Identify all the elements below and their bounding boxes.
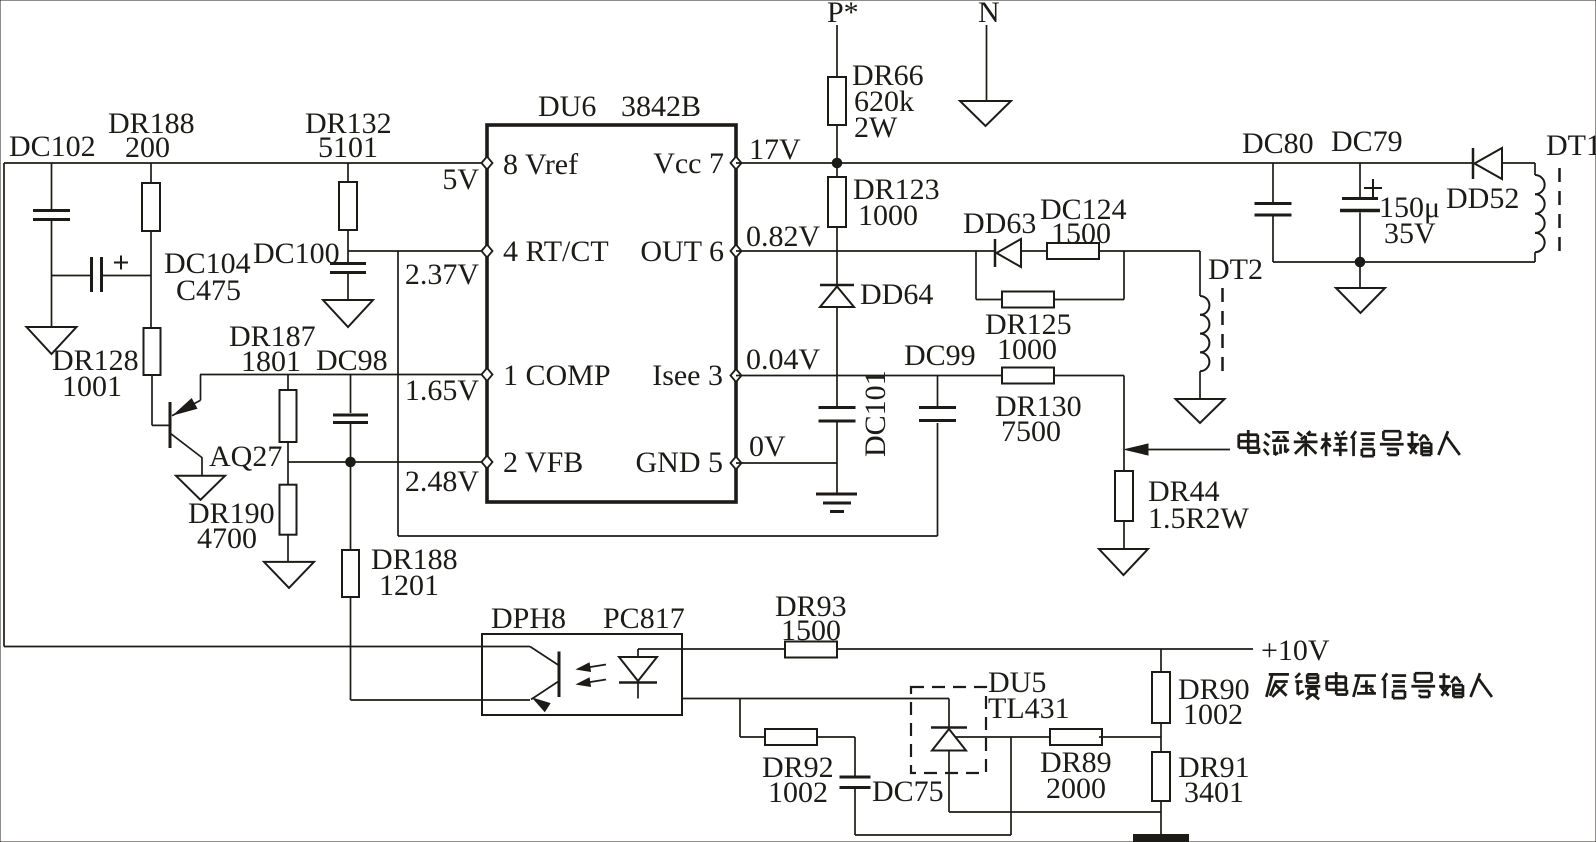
- svg-text:4700: 4700: [197, 522, 257, 555]
- resistor DR66 (620k 2W): [828, 77, 846, 125]
- resistor DR132 (5101): [339, 182, 357, 230]
- svg-text:2 VFB: 2 VFB: [503, 446, 583, 479]
- wire RT/CT branch down: [397, 251, 399, 536]
- svg-text:TL431: TL431: [988, 692, 1070, 725]
- resistor DR123 (1000): [828, 177, 846, 227]
- svg-text:GND 5: GND 5: [636, 446, 724, 479]
- svg-text:1001: 1001: [62, 370, 122, 403]
- wire DR92 to DC75: [817, 736, 855, 738]
- wire DC101 to chassis ground: [836, 423, 838, 494]
- wire DC100 bottom: [347, 274, 349, 300]
- svg-text:DD63: DD63: [963, 207, 1036, 240]
- svg-text:1002: 1002: [1183, 698, 1243, 731]
- inductor DT2 winding: [1200, 296, 1209, 315]
- svg-text:DC79: DC79: [1331, 125, 1403, 158]
- wire DR44 to ground: [1123, 521, 1125, 549]
- wire RT/CT pin 4 row: [348, 250, 487, 252]
- resistor DR92 (1002): [765, 729, 817, 745]
- wire DR123 to DD64: [836, 227, 838, 285]
- svg-text:2000: 2000: [1046, 772, 1106, 805]
- diode DD64: [820, 284, 854, 287]
- wire DC102 bottom: [51, 221, 53, 327]
- svg-text:1000: 1000: [997, 333, 1057, 366]
- wire DT2 to ground: [1199, 371, 1201, 399]
- svg-text:0.82V: 0.82V: [746, 220, 821, 253]
- svg-text:PC817: PC817: [603, 602, 685, 635]
- svg-text:DD64: DD64: [860, 278, 933, 311]
- junction P*/rail: [832, 158, 842, 168]
- wire DC80 bottom: [1272, 217, 1274, 263]
- svg-text:Isee 3: Isee 3: [652, 359, 723, 392]
- pin marker 5: [731, 457, 742, 470]
- resistor DR188 (200): [142, 183, 160, 231]
- svg-text:P*: P*: [827, 0, 859, 29]
- wire branch down to DR92: [739, 699, 741, 738]
- pin marker 1: [482, 368, 493, 381]
- ground under AQ27: [176, 476, 225, 500]
- capacitor DC75: [840, 776, 871, 779]
- wire DC104 left: [52, 275, 91, 277]
- svg-text:200: 200: [125, 131, 170, 164]
- wire DR91 bottom: [1160, 801, 1162, 836]
- svg-text:17V: 17V: [749, 133, 801, 166]
- svg-text:+10V: +10V: [1261, 634, 1330, 667]
- wire DD64 to DC101: [836, 307, 838, 406]
- svg-text:DC99: DC99: [904, 339, 976, 372]
- capacitor DC100: [330, 262, 366, 265]
- wire DR187 top: [287, 375, 289, 391]
- wire LED anode to DR93: [638, 648, 785, 650]
- wire main Vref/Vcc 17V rail left segment: [4, 162, 487, 164]
- resistor DR190 (4700): [280, 485, 297, 535]
- ground under DT2: [1176, 399, 1225, 423]
- wire DR66 to rail: [836, 125, 838, 163]
- wire DT1 bottom corner: [1534, 252, 1536, 262]
- svg-text:0V: 0V: [749, 430, 786, 463]
- svg-text:2W: 2W: [854, 111, 898, 144]
- svg-text:1.5R2W: 1.5R2W: [1148, 502, 1250, 535]
- svg-text:0.04V: 0.04V: [746, 343, 821, 376]
- pin marker 6: [731, 245, 742, 258]
- inductor DT1 winding: [1535, 175, 1545, 194]
- opto LED diode: [619, 657, 657, 681]
- wire N down: [986, 25, 988, 101]
- wire DR188 top: [150, 163, 152, 183]
- pin marker 3: [731, 369, 742, 382]
- wire DD52 to DT1: [1502, 162, 1535, 164]
- wire DR93 to +10V: [837, 648, 1253, 650]
- junction DC79/ground rail: [1355, 257, 1365, 267]
- wire DC99 top: [937, 376, 939, 407]
- core line DT2 dashed: [1221, 288, 1224, 374]
- svg-text:1002: 1002: [768, 776, 828, 809]
- capacitor DC99: [919, 406, 956, 409]
- wire opto LED cathode to TL431 cathode: [682, 698, 949, 700]
- wire DC98 top: [350, 375, 352, 414]
- wire COMP from AQ27 emitter to pin 1: [200, 374, 487, 376]
- core line DT1 dashed: [1558, 168, 1561, 260]
- wire DC124 right: [1099, 250, 1200, 252]
- wire rail to DR123: [836, 163, 838, 177]
- ground under DC100: [323, 300, 373, 327]
- svg-text:DC101: DC101: [859, 370, 892, 457]
- capacitor DC98: [333, 414, 368, 417]
- current sample arrow: [1136, 449, 1230, 451]
- resistor DR44 (1.5R 2W): [1115, 471, 1133, 521]
- ground under DC79: [1336, 288, 1385, 313]
- chassis ground bars: [816, 493, 857, 496]
- svg-text:1.65V: 1.65V: [405, 374, 480, 407]
- resistor DR93 (1500): [785, 642, 837, 658]
- capacitor DC104 (electrolytic C475): [90, 257, 93, 292]
- resistor DR90 (1002): [1152, 672, 1170, 723]
- ground under DR190: [264, 562, 314, 588]
- svg-text:DU6: DU6: [538, 90, 596, 123]
- wire DR90 to DR91: [1160, 723, 1162, 752]
- resistor DR188 (1201): [342, 550, 359, 597]
- ground bar under DR91: [1134, 835, 1188, 842]
- wire left feedback loop vertical: [3, 163, 5, 647]
- wire DC80 top: [1272, 163, 1274, 202]
- wire secondary bottom rail: [1273, 261, 1535, 263]
- TL431 ref wire: [956, 736, 1050, 738]
- svg-text:1801: 1801: [241, 345, 301, 378]
- transistor AQ27 emitter vertical jog: [200, 375, 202, 401]
- wire DC79 top: [1359, 163, 1361, 197]
- opto phototransistor emitter: [531, 681, 559, 700]
- label current sample input (Chinese): [1239, 430, 1460, 456]
- svg-text:1500: 1500: [1051, 217, 1111, 250]
- wire DC104 right: [103, 275, 151, 277]
- wire +10V rail to DR90: [1160, 649, 1162, 672]
- diode DD52: [1472, 148, 1475, 179]
- wire DR128 bottom to base: [151, 375, 153, 425]
- wire DT1 top corner: [1534, 163, 1536, 175]
- opto light arrows: [578, 665, 606, 670]
- wire DR125 branch left: [975, 251, 977, 300]
- ground under DR44: [1099, 549, 1148, 575]
- wire to DT2 winding: [1199, 251, 1201, 296]
- wire DC98 bottom: [350, 424, 352, 462]
- wire DR188-1201 down to opto emitter: [350, 597, 352, 700]
- wire P* down: [836, 25, 838, 77]
- wire DC102 top: [51, 163, 53, 209]
- svg-text:DC100: DC100: [253, 237, 340, 270]
- svg-text:DC80: DC80: [1242, 127, 1314, 160]
- opto emitter arrow: [533, 698, 550, 711]
- capacitor DC101: [819, 406, 856, 409]
- pin marker 4: [482, 245, 493, 258]
- svg-text:C475: C475: [176, 274, 241, 307]
- plus sign of DC104: [114, 262, 128, 264]
- svg-text:4 RT/CT: 4 RT/CT: [503, 235, 609, 268]
- TL431 cathode wire: [948, 699, 950, 728]
- wire DR132 bottom to RT/CT: [347, 230, 349, 262]
- ground under N: [960, 101, 1011, 126]
- capacitor DC79 (150u 35V electrolytic): [1342, 197, 1378, 200]
- op-amp/PWM IC DU6 3842B body: [487, 125, 736, 502]
- svg-text:OUT 6: OUT 6: [640, 235, 724, 268]
- svg-text:1500: 1500: [781, 614, 841, 647]
- opto phototransistor base bar: [558, 652, 561, 698]
- wire Isee pin 3 row: [736, 375, 1002, 377]
- svg-text:5101: 5101: [318, 131, 378, 164]
- wire GND pin 5 row: [736, 462, 837, 464]
- shunt regulator DU5 TL431 dashed box: [911, 687, 986, 773]
- wire DR132 top: [347, 163, 349, 182]
- svg-text:AQ27: AQ27: [209, 440, 282, 473]
- pin marker 2: [482, 456, 493, 469]
- wire DD63 to DC124: [1021, 250, 1047, 252]
- svg-text:2.48V: 2.48V: [405, 465, 480, 498]
- wire DR187 bottom: [287, 442, 289, 462]
- wire DC75 bottom loop to ref: [854, 789, 856, 835]
- wire main rail pin7 to DD52: [736, 162, 1473, 164]
- svg-text:1201: 1201: [379, 569, 439, 602]
- transistor AQ27 emitter diagonal: [172, 400, 201, 416]
- svg-text:8 Vref: 8 Vref: [503, 148, 578, 181]
- svg-text:N: N: [978, 0, 1000, 29]
- wire down to current sense node: [1123, 376, 1125, 472]
- transistor AQ27 emitter arrow: [174, 399, 197, 415]
- opto LED cathode wire: [637, 683, 639, 699]
- pin marker 8: [482, 157, 493, 170]
- label feedback voltage input (Chinese): [1266, 672, 1492, 699]
- resistor DR91 (3401): [1152, 752, 1170, 801]
- resistor DR187 (1801): [280, 390, 297, 442]
- svg-text:DC75: DC75: [872, 775, 944, 808]
- wire DR130 right: [1054, 375, 1124, 377]
- wire left feedback loop bottom horizontal to optocoupler: [4, 646, 530, 648]
- ground under DC102: [27, 327, 77, 354]
- svg-text:DC98: DC98: [316, 344, 388, 377]
- wire DR190 bottom: [287, 535, 289, 562]
- wire DR188 to DR128: [150, 231, 152, 328]
- svg-text:DC102: DC102: [9, 130, 96, 163]
- diode DD63: [994, 239, 997, 267]
- svg-text:DT2: DT2: [1208, 253, 1263, 286]
- capacitor DC102: [33, 209, 70, 212]
- capacitor DC80: [1255, 202, 1292, 205]
- wire DC79 junction to ground: [1359, 262, 1361, 288]
- wire DC79 bottom: [1359, 213, 1361, 263]
- resistor DR130 (7500): [1002, 368, 1054, 384]
- svg-text:1000: 1000: [858, 199, 918, 232]
- resistor DC124 (1500): [1047, 243, 1099, 259]
- svg-text:3842B: 3842B: [621, 90, 701, 123]
- svg-text:DPH8: DPH8: [491, 602, 566, 635]
- optocoupler U-DPH8 box: [482, 634, 682, 715]
- pin marker 7: [731, 157, 742, 170]
- wire RT/CT branch bottom to DC99: [398, 535, 938, 537]
- svg-text:DD52: DD52: [1446, 182, 1519, 215]
- svg-text:7500: 7500: [1001, 415, 1061, 448]
- resistor DR128 (1001): [144, 328, 161, 375]
- transistor AQ27 base bar: [169, 402, 172, 448]
- svg-text:1 COMP: 1 COMP: [503, 359, 611, 392]
- wire DR89 to divider: [1099, 736, 1161, 738]
- wire DR125 branch right: [1054, 299, 1124, 301]
- wire AQ27 collector to ground: [201, 458, 203, 476]
- svg-text:35V: 35V: [1384, 217, 1436, 250]
- svg-text:DT1: DT1: [1546, 129, 1596, 162]
- opto phototransistor collector: [530, 647, 559, 666]
- wire OUT pin 6 row: [736, 250, 995, 252]
- wire VFB row to pin 2: [288, 461, 487, 463]
- resistor DR89 (2000): [1050, 729, 1102, 745]
- wire DR190 top: [287, 462, 289, 485]
- wire VFB node down to DR188-1201: [350, 462, 352, 550]
- TL431 anode wire: [948, 751, 950, 813]
- svg-text:5V: 5V: [442, 163, 479, 196]
- svg-text:3401: 3401: [1184, 776, 1244, 809]
- wire anode rail to DR91 bottom: [949, 811, 1161, 813]
- svg-text:2.37V: 2.37V: [405, 258, 480, 291]
- svg-text:Vcc 7: Vcc 7: [653, 147, 724, 180]
- plus sign of DC79: [1364, 187, 1382, 189]
- junction node at DC98/DR188 on VFB row: [346, 457, 356, 467]
- TL431 symbol: [931, 726, 967, 729]
- resistor DR125 (1000): [1002, 292, 1054, 308]
- transistor AQ27 collector diagonal: [171, 433, 203, 458]
- opto LED anode wire: [637, 649, 639, 657]
